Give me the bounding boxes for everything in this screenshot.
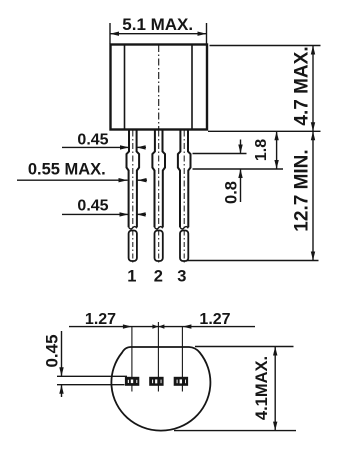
dim 4.1 MAX line [274, 347, 276, 431]
svg-text:1.8: 1.8 [253, 139, 270, 161]
dim 1.8 arrow bottom [274, 160, 278, 169]
body inner line right [191, 46, 193, 129]
dim 0.8 upper arrow [240, 140, 242, 154]
lead 3 center line [183, 131, 185, 229]
ext line body top right [210, 45, 321, 47]
svg-text:0.45: 0.45 [77, 132, 108, 149]
lead 3 tip center line [183, 231, 185, 264]
dim 1.27 line [69, 326, 255, 328]
dim 0.8 lower arrow [240, 169, 242, 202]
dim 4.7 MAX arrow bottom [311, 122, 315, 131]
lead 2 tip [155, 231, 163, 262]
ext line body bottom right [208, 130, 321, 132]
dim 12.7 MIN arrow bottom [311, 252, 315, 261]
lead 1 center line [132, 131, 134, 229]
dim 0.45 upper leader [62, 146, 129, 148]
bottom view lead center lines [131, 327, 133, 392]
svg-text:3: 3 [177, 268, 186, 286]
svg-text:1.27: 1.27 [85, 311, 116, 328]
bottom view package outline [111, 347, 210, 431]
svg-text:5.1 MAX.: 5.1 MAX. [122, 15, 193, 34]
dim 0.55 MAX leader [17, 179, 128, 181]
dim 5.1 MAX line [110, 33, 207, 35]
dim 1.27 arrow at lead3 [182, 324, 191, 328]
dim 4.1 MAX ext bottom [174, 430, 296, 432]
bottom view lead 2 section [149, 377, 163, 386]
lead 2 break squiggle [155, 227, 163, 229]
svg-text:12.7 MIN.: 12.7 MIN. [292, 149, 313, 231]
ext line lead bottom [187, 260, 319, 262]
dim 0.45 bottom-view ext bottom [57, 384, 125, 386]
dim 12.7 MIN line [312, 131, 314, 260]
lead 3 [178, 130, 191, 227]
body center line [158, 45, 160, 129]
svg-text:2: 2 [154, 268, 163, 286]
lead 1 [127, 130, 140, 227]
body inner line left [124, 46, 126, 129]
dim 1.8 arrow top [274, 131, 278, 140]
bottom view lead 3 section [174, 377, 188, 386]
dim 4.1 MAX ext top [195, 346, 294, 348]
svg-text:4.1MAX.: 4.1MAX. [253, 356, 271, 420]
dim 4.7 MAX arrow top [311, 46, 315, 55]
bottom view lead 1 section [125, 377, 139, 386]
lead 3 tip [180, 231, 188, 262]
lead 2 tip center line [158, 231, 160, 264]
dim 1.8 line [276, 131, 278, 169]
svg-text:1: 1 [127, 268, 136, 286]
dim 1.27 arrow at lead1 [123, 324, 132, 328]
dim 5.1 MAX arrow left [110, 32, 119, 36]
dim 4.7 MAX line [312, 46, 314, 132]
svg-text:0.55 MAX.: 0.55 MAX. [28, 161, 106, 179]
svg-text:4.7 MAX.: 4.7 MAX. [292, 46, 313, 125]
dim 12.7 MIN arrow top [311, 131, 315, 140]
ext tick bulge top [193, 153, 247, 155]
lead 1 tip [129, 231, 137, 262]
package body (front view) [111, 45, 208, 130]
svg-text:0.8: 0.8 [223, 181, 241, 204]
lead 1 break squiggle [129, 227, 137, 229]
dim 0.45 bottom-view upper arrow [61, 331, 63, 376]
dim 1.27 center diamond [152, 324, 164, 328]
dim 5.1 MAX extension left [109, 23, 111, 44]
svg-text:0.45: 0.45 [43, 334, 62, 367]
dim 0.45 bottom-view lower arrow [61, 385, 63, 397]
dim 5.1 MAX arrow right [198, 32, 207, 36]
dim 5.1 MAX extension right [206, 23, 208, 44]
lead 1 tip center line [132, 231, 134, 264]
lead 3 break squiggle [180, 227, 188, 229]
dim 0.45 lower leader [62, 213, 129, 215]
ext line bulge bottom [193, 168, 284, 170]
dim 0.45 bottom-view ext top [57, 375, 127, 377]
svg-text:0.45: 0.45 [77, 198, 108, 215]
lead 2 center line [158, 131, 160, 229]
lead 2 [152, 130, 165, 227]
svg-text:1.27: 1.27 [199, 311, 230, 328]
